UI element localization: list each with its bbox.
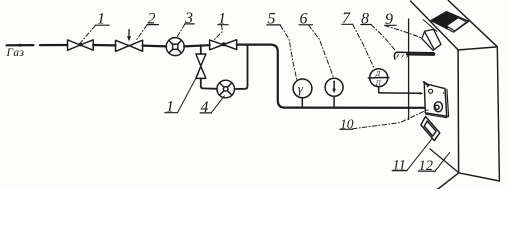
label 12 (419, 158, 434, 174)
node Gas inlet label (6, 47, 25, 59)
wire main to corner (237, 45, 427, 108)
label 11 (393, 157, 406, 173)
label 4 (201, 99, 209, 116)
burner opening dark patch on top (423, 12, 469, 33)
label 3 (184, 10, 193, 27)
svg-text:γ: γ (298, 81, 304, 96)
meter 4 (bypass meter) (217, 80, 235, 98)
valve 1 (bypass main, with dot) (210, 40, 237, 50)
upper plate (gas valve unit) (424, 82, 449, 118)
wire vertical sensor line (408, 19, 410, 120)
label 1 (first valve) (97, 10, 105, 27)
label 6 (300, 11, 308, 28)
box top-left edge (411, 1, 459, 50)
box bottom left edge (437, 173, 458, 190)
valve 1 (first shutoff) (68, 40, 94, 51)
gauge 5 (manometer) (301, 98, 303, 108)
label 2 (148, 10, 156, 27)
wire gauge7 to plate (379, 87, 420, 94)
label 1 (bypass main valve) (218, 10, 226, 27)
label 9 (385, 11, 393, 28)
flow arrow on gas line (19, 44, 25, 47)
wire gas inlet dashed (7, 44, 68, 46)
wire bypass bottom right (235, 45, 248, 89)
arrowhead into burner plate (427, 106, 433, 110)
meter 3 (gas meter) (166, 38, 184, 56)
bracket (pilot burner shelf) (394, 52, 434, 59)
wire bypass bottom left (201, 78, 217, 88)
box front ridge (457, 50, 460, 173)
box right edge (497, 47, 499, 181)
box front-top edge (459, 47, 497, 50)
svg-text:Д: Д (375, 70, 381, 78)
label 8 (361, 10, 369, 27)
gauge 7 (sensor Д/П) (370, 69, 388, 87)
lower plate (burner door) (421, 117, 440, 141)
valve 2 (with arrow actuator) (116, 40, 143, 51)
wire (184, 45, 210, 46)
flag (open lid / damper) (422, 29, 441, 50)
svg-text:Газ: Газ (6, 47, 25, 59)
box left face lower edge (430, 149, 459, 173)
wire (143, 44, 167, 47)
box back-top edge (448, 1, 497, 47)
box bottom right edge (459, 173, 500, 181)
wire (93, 44, 115, 47)
label 7 (342, 10, 351, 27)
wire bypass down leg (200, 45, 202, 54)
gauge 6 (flow indicator) (333, 96, 335, 107)
label 1 (bypass vertical valve) (166, 99, 174, 116)
valve 1 (bypass vertical) (196, 54, 206, 78)
label 5 (268, 11, 276, 28)
label 10 (340, 116, 354, 131)
